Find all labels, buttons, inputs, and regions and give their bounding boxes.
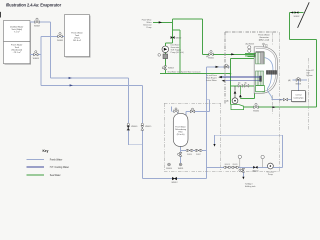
flow arrow feed: [231, 53, 234, 55]
check valve suction: [171, 36, 175, 39]
tank T2 text: [71, 32, 83, 43]
wire filling main riser: [50, 22, 128, 78]
boundary right vertical: [279, 32, 281, 172]
legend sea water line: [27, 174, 45, 176]
svg-text:W4608: W4608: [33, 58, 39, 60]
sight glass 1: [248, 46, 251, 49]
wire stack feed: [231, 57, 256, 59]
wire filter inlet: [171, 107, 177, 115]
tank T2: [65, 15, 90, 57]
valve on evaporator make-up: [224, 64, 228, 68]
wire bypass branch: [173, 30, 180, 74]
salinometer box shadow: [292, 92, 306, 103]
wire suction header: [165, 19, 202, 46]
brine valve A2: [244, 84, 248, 87]
wire filter bypass line: [181, 149, 207, 151]
tank T1 shadow: [5, 22, 32, 65]
svg-text:W4619: W4619: [232, 164, 237, 166]
svg-text:W4605: W4605: [57, 40, 63, 42]
evaporator shell inner: [256, 48, 276, 91]
legend fresh water line: [27, 158, 45, 160]
svg-text:(Alfa Laval): (Alfa Laval): [259, 38, 270, 41]
instrument gauge 2: [262, 159, 264, 168]
bilge arrow: [242, 177, 244, 180]
sea water piping group: [153, 13, 317, 108]
svg-text:Jacket Water: Jacket Water: [206, 79, 217, 82]
flow arrow loop stub: [213, 144, 215, 147]
svg-text:~73.1 m³: ~73.1 m³: [13, 51, 22, 54]
double valve pair on bypass: [186, 149, 202, 151]
feed flange: [254, 53, 255, 57]
vent stub: [263, 45, 265, 47]
wire brine suction: [231, 85, 260, 87]
tank T2 shadow: [66, 16, 91, 58]
valve W4605 on T2 feed: [58, 33, 62, 38]
evaporator label: [258, 33, 270, 41]
valve (A) condensate: [283, 98, 287, 101]
rehardening filter vessel: [173, 113, 188, 146]
tank T1 lower text: [11, 44, 23, 55]
flow arrow overboard: [272, 106, 275, 108]
valve W4615 on riser 2: [141, 123, 144, 130]
svg-text:W4601: W4601: [208, 58, 214, 60]
flow arrow overboard top: [290, 12, 293, 14]
valve W4612 bottom run: [172, 177, 176, 180]
flow arrow filling line 1: [69, 77, 72, 79]
sw supply pump: [162, 46, 169, 53]
valve W4608: [34, 51, 38, 56]
svg-text:W4617: W4617: [196, 154, 201, 156]
valve W4601: [209, 50, 213, 55]
HT cooling water text: [206, 74, 217, 82]
tank T1 upper text: [10, 26, 24, 34]
wire top branch to evaporator: [206, 66, 230, 68]
ship side break: [298, 2, 310, 28]
HT arrow 1: [218, 76, 222, 78]
flow arrow hydrophore top branch: [216, 66, 219, 68]
salinometer box: [291, 91, 305, 102]
svg-text:W4612: W4612: [172, 182, 178, 184]
wire filter inlet 2: [186, 100, 210, 115]
svg-text:Key: Key: [43, 149, 49, 153]
wire bilge branch: [242, 167, 244, 177]
wire overboard top: [289, 12, 303, 14]
wire sump drain: [240, 92, 254, 99]
wire ejector discharge: [244, 106, 317, 108]
wire feed bar 2: [248, 55, 256, 57]
strainer: [163, 54, 168, 59]
svg-text:101.6 m³: 101.6 m³: [73, 39, 82, 42]
evaporator shell outer: [254, 47, 277, 94]
svg-text:Pump: Pump: [268, 174, 273, 176]
tank T1: [4, 21, 31, 64]
wire evaporator feed: [203, 53, 256, 55]
svg-text:(A): (A): [206, 55, 209, 58]
valve W4613: [190, 108, 194, 113]
wire riser 2 down: [141, 85, 143, 178]
brine valve A1: [238, 84, 242, 87]
brine sump: [256, 86, 265, 92]
circulate pump: [268, 163, 274, 169]
valve filter inlet: [174, 108, 178, 113]
wire condensate line: [272, 99, 292, 101]
inlet text block: [142, 19, 152, 30]
svg-text:W4630: W4630: [253, 111, 259, 113]
green junction: [230, 73, 232, 75]
legend HT cooling line: [27, 166, 45, 168]
wire hydrophore main vertical: [205, 67, 207, 179]
wire left drop: [41, 36, 142, 85]
valve W4603: [162, 66, 166, 70]
svg-text:W4609: W4609: [131, 126, 137, 128]
valve W4620: [253, 166, 257, 169]
valve filter outlet: [178, 152, 182, 156]
filter text: [175, 126, 186, 137]
svg-text:(A) W4606: (A) W4606: [246, 42, 255, 45]
instrument gauge 1: [239, 159, 241, 168]
valve W4628: [296, 77, 300, 81]
wire evaporator feed drop: [202, 19, 204, 54]
svg-text:Sea Water: Sea Water: [50, 174, 61, 177]
svg-text:Pump (50 m³/h): Pump (50 m³/h): [171, 51, 185, 54]
pump label: [171, 44, 185, 55]
svg-text:W4602: W4602: [176, 38, 182, 40]
svg-text:System: System: [306, 74, 313, 77]
boundary hydrophore left: [163, 103, 165, 171]
svg-text:(10 m³/h): (10 m³/h): [177, 133, 185, 136]
valve bilge branch: [241, 168, 245, 172]
wire sea water crossover main: [160, 73, 231, 75]
svg-text:Fresh Water: Fresh Water: [50, 158, 63, 161]
ejector pump: [232, 98, 238, 104]
upper stack feed bars: [245, 54, 256, 56]
wire T2 feed: [41, 35, 65, 37]
svg-text:Pump: Pump: [147, 27, 152, 29]
wire loop top: [215, 135, 283, 167]
flow arrow inlet: [159, 21, 162, 23]
svg-text:Central: Central: [295, 93, 302, 96]
lower plate stack: [256, 71, 264, 85]
wire bottom run to hydrophore: [142, 178, 206, 180]
wire T1 upper outlet: [30, 21, 50, 23]
pump up arrow 1: [234, 91, 237, 94]
HT cooling water return: [223, 80, 261, 82]
wire distribution line: [206, 166, 282, 168]
wire filter feed stub: [206, 99, 209, 101]
svg-text:(A): (A): [288, 79, 291, 82]
wire filter outlet: [180, 146, 182, 163]
wire riser 1 down: [128, 78, 142, 145]
HT cooling water supply: [220, 76, 262, 78]
upper plate stack: [256, 52, 265, 64]
boundary evaporator unit top: [164, 32, 309, 172]
svg-text:W4616: W4616: [187, 154, 192, 156]
wire salinometer top feed: [292, 80, 307, 91]
valve W4609 on riser 1: [127, 123, 130, 130]
boundary aux right: [308, 58, 310, 130]
svg-text:(A): (A): [226, 100, 229, 103]
wire inlet from shore: [153, 21, 173, 23]
brine ejector: [231, 105, 244, 110]
svg-text:W4618: W4618: [225, 164, 230, 166]
boundary hydrophore top: [164, 102, 221, 104]
valve W4607: [35, 18, 39, 23]
svg-text:W4611: W4611: [178, 168, 184, 170]
HT pipe end flange: [259, 76, 261, 82]
wire pump column: [164, 53, 166, 74]
svg-text:W4610: W4610: [166, 168, 172, 170]
svg-text:W4632: W4632: [294, 16, 300, 18]
wire ejector riser: [230, 58, 232, 104]
svg-text:H.T. Cooling Water: H.T. Cooling Water: [50, 166, 69, 169]
wire T1 lower outlet: [30, 54, 41, 56]
condenser block: [266, 71, 276, 75]
svg-text:W4607: W4607: [34, 25, 40, 27]
svg-text:W4615: W4615: [145, 126, 151, 128]
sight glass 2: [248, 49, 251, 52]
double valve pair on distribution: [224, 166, 239, 168]
outlet symbol W4611: [179, 163, 182, 166]
boundary hydrophore right: [220, 103, 222, 171]
boundary internal divider: [272, 32, 274, 115]
svg-text:W4628: W4628: [295, 83, 301, 85]
svg-text:Holding tank: Holding tank: [245, 185, 256, 188]
svg-text:Cooling Sys: Cooling Sys: [293, 97, 303, 99]
wire overboard riser: [289, 13, 316, 108]
svg-text:Illustration 2.4.4a: Evaporato: Illustration 2.4.4a: Evaporator: [6, 2, 62, 7]
instrument thermometer: [239, 169, 242, 172]
boundary evaporator left: [224, 32, 226, 103]
pump up arrow 2: [239, 94, 242, 97]
fresh water piping group: [30, 22, 307, 179]
outlet symbol W4610: [168, 163, 171, 166]
HT arrow 2: [222, 80, 226, 82]
boundary bottom: [164, 171, 279, 173]
edge artifact line: [0, 12, 1, 18]
svg-text:7.1 m³: 7.1 m³: [14, 31, 20, 34]
valve W4630: [254, 103, 258, 108]
tank T1 divider: [4, 41, 31, 43]
svg-text:Sea Water Circ System Main Cro: Sea Water Circ System Main Crossover: [168, 71, 202, 74]
pump gauge: [158, 54, 161, 57]
overboard valve: [295, 11, 299, 13]
flow arrow filling line 2: [70, 84, 73, 86]
svg-text:W4603: W4603: [168, 68, 174, 70]
condensate curve: [264, 58, 273, 100]
